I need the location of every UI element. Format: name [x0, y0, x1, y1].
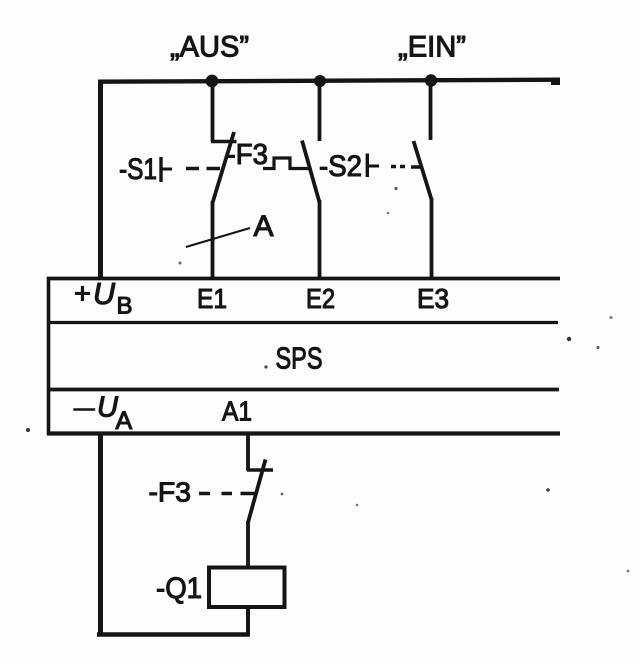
contact F3 output lever (NC break contact)	[248, 460, 266, 523]
speck right area	[597, 346, 600, 349]
wire left vertical below box	[98, 433, 103, 637]
wire A1 output stub	[246, 433, 250, 471]
SPS box top edge	[47, 277, 560, 281]
speck near S2 lower	[387, 212, 390, 215]
SPS box divider above output row	[47, 388, 559, 392]
wire from F3 contact to Q1 coil	[246, 521, 250, 567]
wire E1 upper stub	[211, 83, 215, 142]
SPS box divider under input row	[47, 321, 558, 324]
wire E3 lower	[430, 198, 434, 277]
wire E3 upper stub	[429, 83, 433, 140]
node junction dot at E2 branch	[314, 75, 326, 87]
speck lower right	[546, 488, 550, 492]
svg-text:„AUS”: „AUS”	[170, 31, 249, 64]
wire E1 lower	[211, 201, 215, 278]
svg-text:B: B	[117, 293, 133, 320]
svg-text:A1: A1	[222, 396, 252, 427]
linkage F3 step to E2 contact	[263, 158, 310, 169]
svg-text:-F3: -F3	[227, 139, 269, 171]
speck right edge lower	[627, 570, 630, 573]
linkage dashes S1	[186, 167, 220, 170]
bus right end blob	[551, 81, 560, 86]
contact S2 lever (NO make contact)	[414, 141, 432, 200]
SPS box bottom edge	[47, 431, 560, 435]
contact S1 fixed bar	[211, 140, 237, 143]
linkage dashes S2	[391, 165, 423, 169]
svg-text:-Q1: -Q1	[156, 572, 202, 605]
linkage dashes F3 output	[199, 492, 256, 495]
svg-text:E3: E3	[417, 283, 449, 314]
speck far right	[610, 316, 613, 319]
svg-text:A: A	[254, 210, 274, 243]
terminal label -UA minus stroke	[73, 408, 95, 411]
wire E2 upper stub	[318, 83, 322, 141]
svg-text:-F3: -F3	[149, 477, 192, 508]
wire Q1 coil bottom	[246, 607, 250, 637]
svg-text:-S2: -S2	[319, 150, 362, 183]
wire left vertical from bus to +UB	[98, 80, 103, 279]
SPS box left edge	[47, 277, 51, 435]
node junction dot at AUS branch	[206, 75, 219, 88]
svg-text:E1: E1	[197, 283, 227, 314]
wire top supply bus	[98, 80, 560, 82]
wire bottom return	[97, 632, 250, 636]
actuator S1 pushbutton bar	[159, 157, 162, 182]
contact F3 lever (NO make contact)	[302, 141, 320, 203]
contact S1 lever (NC break contact)	[213, 132, 235, 203]
speck below F3 dashes	[356, 504, 359, 507]
speck right of SPS box	[567, 337, 571, 341]
svg-text:E2: E2	[306, 283, 335, 314]
svg-text:SPS: SPS	[276, 341, 323, 376]
contact F3 output fixed bar	[247, 468, 273, 471]
speck right of F3 lower	[281, 493, 284, 496]
svg-text:U: U	[93, 277, 116, 311]
speck left of SPS	[264, 365, 267, 368]
svg-text:A: A	[116, 407, 133, 435]
node junction dot at EIN branch	[425, 74, 437, 86]
speck below A leader	[179, 262, 182, 265]
svg-text:„EIN”: „EIN”	[398, 31, 466, 64]
actuator S2 pushbutton bar	[366, 154, 369, 178]
coil Q1 rectangle	[209, 568, 285, 608]
wire E2 lower	[318, 200, 322, 278]
speck under S2	[394, 187, 397, 190]
node A leader line	[186, 228, 250, 247]
speck bottom left	[26, 428, 30, 432]
svg-text:+: +	[74, 278, 91, 310]
svg-text:-S1: -S1	[119, 153, 157, 186]
